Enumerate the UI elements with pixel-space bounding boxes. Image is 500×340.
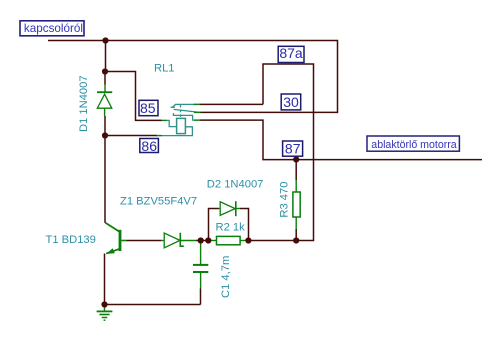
svg-text:R3 470: R3 470 [279, 182, 291, 218]
svg-text:R2 1k: R2 1k [216, 222, 246, 234]
svg-text:kapcsolóról: kapcsolóról [24, 22, 83, 35]
svg-text:85: 85 [140, 100, 156, 116]
svg-text:T1 BD139: T1 BD139 [46, 234, 96, 246]
svg-text:D2 1N4007: D2 1N4007 [207, 178, 264, 190]
svg-text:C1 4,7m: C1 4,7m [220, 256, 232, 298]
svg-text:D1 1N4007: D1 1N4007 [78, 75, 90, 132]
svg-text:ablaktörlő motorra: ablaktörlő motorra [371, 139, 456, 151]
svg-text:86: 86 [141, 138, 157, 154]
svg-text:87a: 87a [279, 45, 303, 61]
svg-text:30: 30 [283, 94, 299, 110]
svg-text:Z1 BZV55F4V7: Z1 BZV55F4V7 [120, 195, 197, 207]
svg-text:87: 87 [285, 141, 301, 157]
svg-text:RL1: RL1 [154, 63, 175, 75]
